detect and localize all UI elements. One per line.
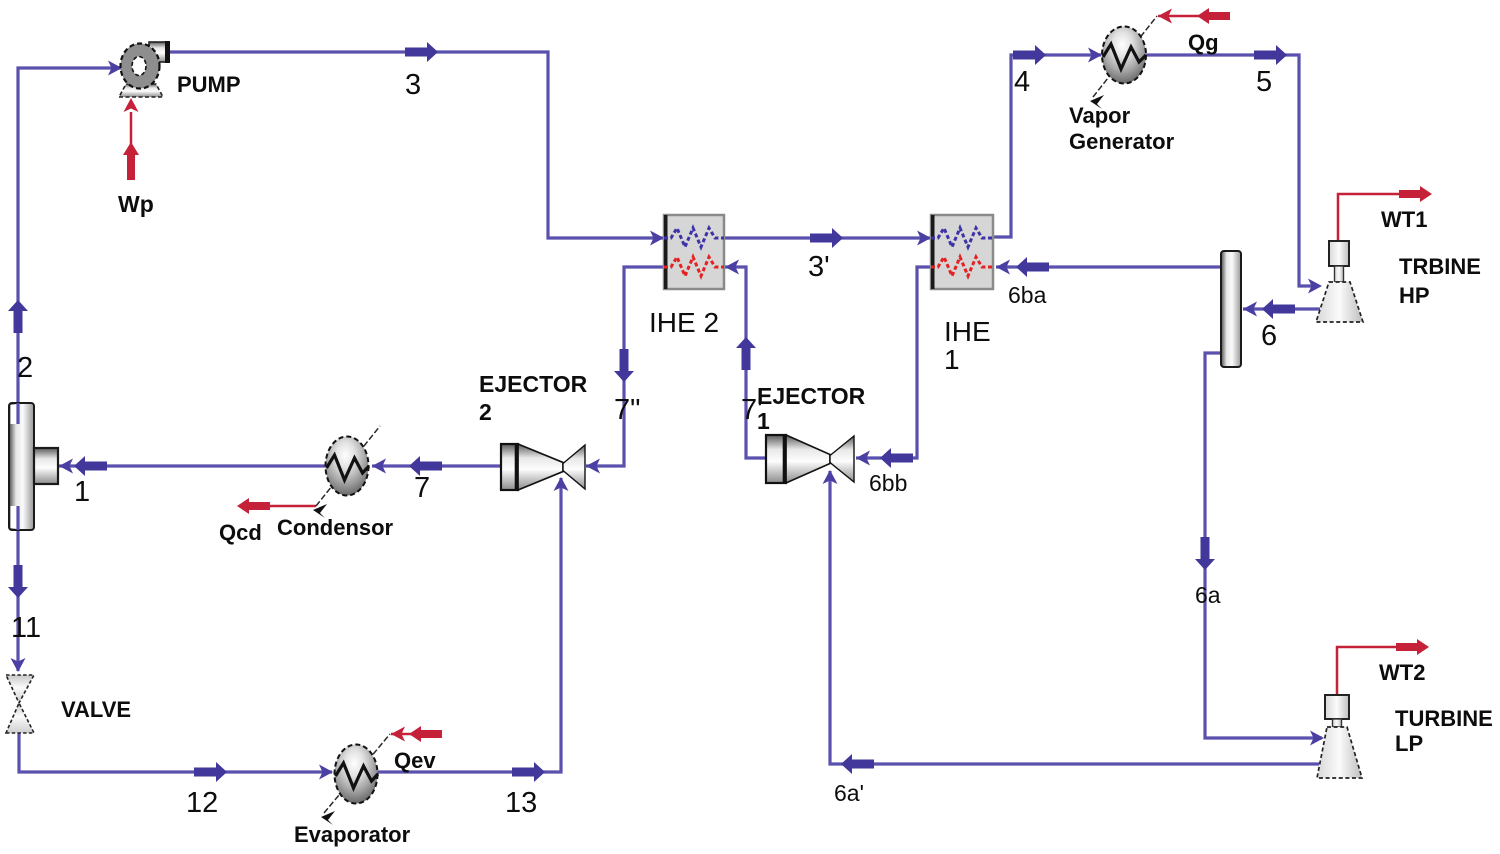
svg-text:Qcd: Qcd — [219, 520, 262, 545]
svg-text:13: 13 — [505, 787, 537, 819]
svg-text:2: 2 — [17, 352, 33, 384]
svg-text:EJECTOR: EJECTOR — [757, 383, 866, 409]
svg-text:5: 5 — [1256, 66, 1272, 98]
svg-text:1: 1 — [74, 476, 90, 508]
svg-text:6a: 6a — [1195, 582, 1221, 608]
svg-text:Generator: Generator — [1069, 129, 1175, 154]
svg-text:11: 11 — [11, 612, 41, 644]
svg-text:3: 3 — [405, 69, 421, 101]
svg-text:6ba: 6ba — [1008, 282, 1047, 308]
svg-text:6: 6 — [1261, 320, 1277, 352]
svg-text:Qev: Qev — [394, 748, 436, 773]
svg-text:TRBINE: TRBINE — [1399, 254, 1481, 279]
svg-text:1: 1 — [944, 344, 960, 375]
svg-text:HP: HP — [1399, 283, 1430, 308]
svg-text:Qg: Qg — [1188, 30, 1219, 55]
svg-text:EJECTOR: EJECTOR — [479, 371, 588, 397]
svg-text:Evaporator: Evaporator — [294, 822, 411, 847]
svg-text:LP: LP — [1395, 731, 1423, 756]
svg-text:4: 4 — [1014, 66, 1030, 98]
svg-text:WT1: WT1 — [1381, 207, 1427, 232]
svg-text:VALVE: VALVE — [61, 697, 131, 722]
svg-text:7": 7" — [614, 394, 640, 426]
svg-text:1: 1 — [757, 408, 770, 434]
svg-text:3': 3' — [808, 251, 830, 283]
svg-text:2: 2 — [479, 399, 492, 425]
svg-text:6a': 6a' — [834, 780, 864, 806]
svg-text:12: 12 — [186, 787, 218, 819]
svg-text:Wp: Wp — [118, 191, 154, 217]
svg-text:Vapor: Vapor — [1069, 103, 1131, 128]
svg-text:Condensor: Condensor — [277, 515, 394, 540]
svg-text:6bb: 6bb — [869, 470, 907, 496]
svg-text:IHE 2: IHE 2 — [649, 307, 719, 338]
svg-text:PUMP: PUMP — [177, 72, 241, 97]
svg-text:WT2: WT2 — [1379, 660, 1425, 685]
svg-text:IHE: IHE — [944, 316, 991, 347]
svg-text:TURBINE: TURBINE — [1395, 706, 1493, 731]
svg-text:7: 7 — [414, 472, 430, 504]
